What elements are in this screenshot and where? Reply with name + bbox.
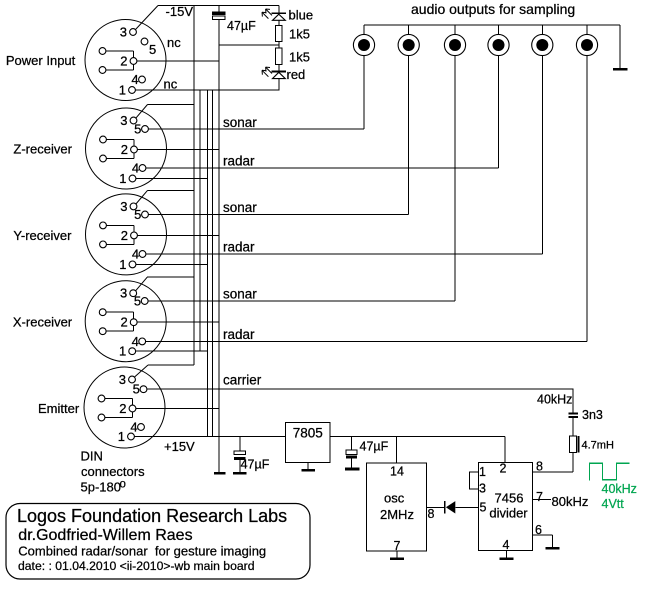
svg-text:2: 2 [121,228,128,243]
svg-text:o: o [120,479,126,491]
svg-text:3: 3 [479,482,486,496]
svg-text:1: 1 [119,257,126,272]
svg-text:3: 3 [120,199,127,214]
svg-text:47µF: 47µF [360,440,389,454]
svg-text:4.7mH: 4.7mH [582,440,614,452]
svg-text:date: : 01.04.2010 <ii-2010>-w: date: : 01.04.2010 <ii-2010>-wb main boa… [18,559,254,573]
svg-text:4: 4 [130,420,137,435]
svg-text:4: 4 [132,161,139,176]
svg-text:2: 2 [121,142,128,157]
svg-text:5p-180: 5p-180 [81,480,121,495]
svg-text:4: 4 [132,334,139,349]
svg-text:5: 5 [480,501,487,515]
svg-text:3: 3 [120,286,127,301]
svg-text:3n3: 3n3 [582,408,603,422]
svg-text:Z-receiver: Z-receiver [13,142,72,157]
svg-text:7: 7 [394,539,401,553]
svg-text:1k5: 1k5 [289,50,310,65]
svg-text:Y-receiver: Y-receiver [13,228,72,243]
svg-text:4Vtt: 4Vtt [602,497,625,511]
svg-text:7: 7 [536,490,543,504]
svg-text:sonar: sonar [223,287,257,302]
svg-text:X-receiver: X-receiver [13,315,73,330]
svg-text:14: 14 [390,465,404,479]
svg-text:connectors: connectors [81,464,145,479]
svg-text:47µF: 47µF [241,458,270,472]
svg-text:dr.Godfried-Willem Raes: dr.Godfried-Willem Raes [18,527,192,544]
svg-text:2: 2 [500,462,507,476]
svg-text:DIN: DIN [81,449,103,464]
svg-text:2: 2 [119,401,126,416]
svg-text:radar: radar [223,327,255,342]
svg-text:sonar: sonar [223,115,257,130]
svg-text:radar: radar [223,240,255,255]
svg-text:1k5: 1k5 [289,27,310,42]
svg-text:1: 1 [479,465,486,479]
svg-text:5: 5 [133,382,140,397]
svg-text:divider: divider [489,506,528,521]
svg-text:1: 1 [119,83,126,98]
svg-text:7805: 7805 [293,426,323,441]
svg-text:1: 1 [118,429,125,444]
svg-text:3: 3 [120,113,127,128]
svg-text:80kHz: 80kHz [552,494,589,509]
svg-text:1: 1 [119,171,126,186]
svg-text:2: 2 [120,54,127,69]
svg-text:4: 4 [132,247,139,262]
svg-text:8: 8 [536,460,543,474]
svg-text:carrier: carrier [223,373,262,388]
svg-text:Logos Foundation Research Labs: Logos Foundation Research Labs [17,506,287,526]
svg-text:5: 5 [134,294,141,309]
svg-text:4: 4 [503,538,510,552]
svg-text:47µF: 47µF [227,19,256,33]
svg-text:Emitter: Emitter [38,401,80,416]
svg-text:osc: osc [384,491,405,506]
svg-text:40kHz: 40kHz [602,482,637,496]
svg-text:3: 3 [119,372,126,387]
svg-text:5: 5 [149,42,156,57]
svg-text:4: 4 [131,72,138,87]
svg-text:7456: 7456 [495,491,524,506]
svg-text:8: 8 [428,507,435,521]
svg-text:2: 2 [120,315,127,330]
svg-text:2MHz: 2MHz [380,507,414,522]
svg-text:nc: nc [164,77,178,92]
svg-text:-15V: -15V [166,4,194,19]
svg-text:Combined radar/sonar for gest: Combined radar/sonar for gesture imaging [18,544,266,559]
svg-text:1: 1 [119,344,126,359]
svg-text:40kHz: 40kHz [537,393,572,407]
svg-text:3: 3 [120,25,127,40]
svg-text:Power Input: Power Input [6,53,76,68]
svg-text:radar: radar [223,154,255,169]
svg-text:5: 5 [134,207,141,222]
svg-text:audio outputs for sampling: audio outputs for sampling [411,1,575,17]
svg-text:red: red [287,67,306,82]
svg-text:nc: nc [167,35,181,50]
svg-text:blue: blue [289,8,314,23]
svg-text:+15V: +15V [164,439,195,454]
svg-text:sonar: sonar [223,200,257,215]
svg-text:5: 5 [134,122,141,137]
